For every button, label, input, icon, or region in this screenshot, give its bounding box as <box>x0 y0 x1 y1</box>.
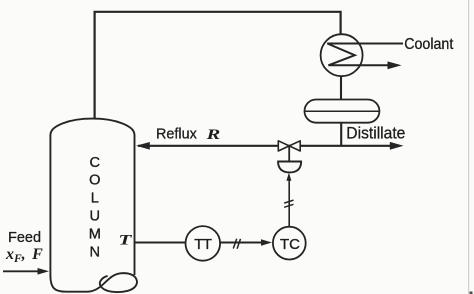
svg-text:Coolant: Coolant <box>404 36 454 53</box>
svg-text:TC: TC <box>280 236 300 253</box>
svg-text:N: N <box>90 244 101 260</box>
svg-text:Distillate: Distillate <box>346 124 405 143</box>
svg-text:Reflux: Reflux <box>156 126 197 142</box>
svg-text:U: U <box>90 209 101 225</box>
svg-text:TT: TT <box>194 236 212 253</box>
svg-text:M: M <box>89 226 101 242</box>
svg-text:O: O <box>89 173 100 189</box>
svg-text:T: T <box>118 232 132 248</box>
svg-text:Feed: Feed <box>8 230 41 246</box>
svg-text:R: R <box>205 126 220 142</box>
svg-text:xF,F: xF,F <box>5 246 43 265</box>
svg-text:L: L <box>91 191 99 207</box>
svg-text:C: C <box>90 155 101 171</box>
